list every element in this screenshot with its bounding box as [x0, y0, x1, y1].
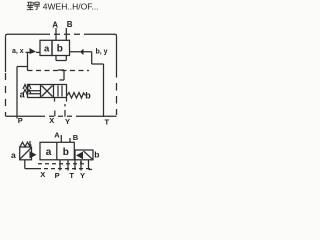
- enclosure right edge: [116, 36, 118, 70]
- pilot port B tick: [69, 138, 71, 142]
- main valve crossed arrows: [42, 86, 53, 97]
- svg-text:a: a: [44, 43, 50, 54]
- svg-text:T: T: [69, 171, 74, 180]
- svg-text:B: B: [67, 20, 73, 29]
- solenoid a triangle: [30, 151, 37, 159]
- enclosure left edge: [5, 36, 7, 72]
- svg-text:b: b: [63, 147, 69, 158]
- svg-text:Y: Y: [65, 117, 70, 126]
- svg-text:4WEH..H/OF...: 4WEH..H/OF...: [43, 1, 99, 11]
- svg-text:b: b: [94, 150, 99, 160]
- B-side hook wire: [58, 70, 64, 80]
- solenoid b box: [75, 150, 93, 160]
- svg-text:T: T: [105, 118, 110, 127]
- x pilot routing wire: [27, 52, 29, 70]
- enclosure top edge: [8, 33, 116, 35]
- top valve box a: [40, 40, 52, 55]
- dashed pilot supply wire: [28, 70, 90, 72]
- main valve right box bars: [58, 86, 62, 97]
- svg-text:b, y: b, y: [96, 49, 108, 56]
- solenoid a drain wire: [25, 160, 37, 169]
- svg-text:B: B: [73, 133, 79, 142]
- svg-text:P: P: [18, 116, 23, 125]
- U bracket under top valve: [56, 56, 66, 61]
- P riser wire: [16, 67, 18, 119]
- right pilot triangle: [80, 49, 84, 55]
- x branch wire: [17, 66, 28, 68]
- main valve left box bars: [29, 91, 41, 94]
- solenoid a box: [20, 147, 32, 160]
- svg-text:A: A: [54, 131, 60, 140]
- dashed drain row 2: [37, 168, 92, 170]
- pilot spring arrow: [29, 141, 31, 147]
- X tick: [54, 111, 56, 117]
- svg-text:a: a: [11, 150, 16, 160]
- svg-text:b: b: [85, 90, 91, 100]
- main valve right spring: [67, 93, 86, 99]
- left pilot wire: [26, 51, 41, 53]
- port line B: [65, 28, 67, 40]
- left pilot triangle: [30, 48, 37, 54]
- pilot valve body: [40, 142, 74, 160]
- pilot valve left spring: [20, 142, 30, 147]
- svg-text:X: X: [40, 170, 45, 179]
- port line A: [55, 28, 57, 40]
- main valve lower ticks: [55, 98, 67, 102]
- T riser wire: [103, 64, 105, 117]
- bottom port stub Y: [80, 161, 82, 171]
- bottom port stub right: [89, 160, 93, 170]
- svg-text:P: P: [55, 171, 60, 180]
- Y stub arrow: [80, 162, 82, 164]
- right pilot wire: [70, 51, 92, 53]
- title 型 glyph (pseudo): [27, 2, 34, 10]
- svg-text:a, x: a, x: [12, 48, 24, 55]
- svg-text:A: A: [52, 21, 58, 30]
- svg-text:b: b: [57, 44, 63, 55]
- Y line: [64, 104, 66, 117]
- main valve left spring: [23, 85, 31, 90]
- svg-text:Y: Y: [80, 171, 85, 180]
- solenoid b triangle: [76, 152, 83, 160]
- top valve box b: [52, 40, 70, 55]
- svg-text:a: a: [46, 147, 52, 158]
- bottom port stub T: [74, 161, 76, 171]
- main valve body: [28, 85, 67, 98]
- svg-text:X: X: [49, 116, 54, 125]
- dashed drain row 1: [38, 163, 87, 165]
- enclosure bottom edge: [6, 115, 117, 117]
- pilot port A tick: [60, 135, 62, 142]
- title 号 glyph (pseudo): [34, 2, 40, 10]
- y pilot routing wire: [92, 52, 104, 64]
- bottom port stub 2: [67, 160, 69, 171]
- bottom port stub P: [59, 160, 61, 171]
